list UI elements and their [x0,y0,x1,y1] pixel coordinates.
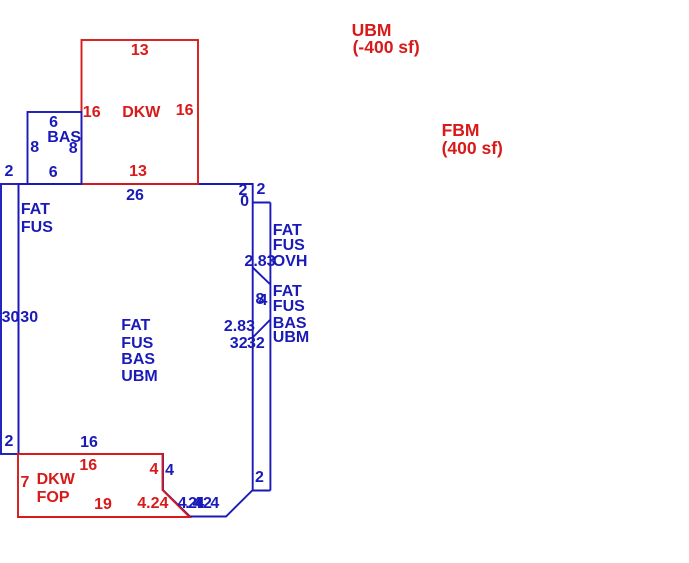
label 4 blue [165,463,174,479]
label 13 top [131,43,149,59]
wire: diagonal 2.83 lower [253,320,271,338]
label 2 corner first [239,183,248,199]
label 6 bottom BAS [49,165,58,181]
label 16 left of DKW [83,105,101,121]
label 16 FOP top [79,458,97,474]
label 2.83 upper [244,254,275,270]
label FBM [442,122,480,138]
label 2 strip bottom [4,434,13,450]
label 2 right bottom [255,470,264,486]
label FAT FUS OVH [273,223,302,239]
wire: BAS small rectangle [28,112,82,184]
label 30 first [2,310,20,326]
label 4.24 blue second [193,496,218,512]
label 2 top-left [4,164,13,180]
label 4 blue bottom [195,496,204,512]
label 0 [240,194,249,210]
label (-400 sf) [353,39,420,55]
label 8 left [30,140,39,156]
wire: diagonal 2.83 upper [253,268,271,285]
label 26 [126,188,144,204]
label 2 corner second [257,182,266,198]
label FAT FUS BAS UBM main [121,318,150,334]
label 16 right of DKW [176,103,194,119]
wire: DKW red rectangle [82,40,199,184]
label UBM [352,22,392,38]
label 6 top BAS [49,115,58,131]
label BAS [47,130,81,146]
label 7 [21,475,30,491]
label 4 red [150,462,159,478]
label 30 second [20,310,38,326]
label 2.83 lower [224,319,255,335]
label FAT FUS left [21,202,50,218]
label 4 overlapped [259,293,268,309]
label 32 second [247,336,265,352]
wire: right strip right vertical [269,203,271,491]
wire: main FAT FUS BAS UBM polygon [19,184,253,517]
label 8 right [69,141,78,157]
label 19 [94,497,112,513]
wire: right strip top [253,202,271,204]
label DKW FOP [37,472,75,488]
label 4.24 blue first [178,496,203,512]
wire: left strip FAT FUS outline [1,184,19,454]
label 13 bottom [129,164,147,180]
label FAT FUS BAS UBM right [273,284,302,300]
label DKW [122,105,160,121]
wire: DKW FOP red polygon [18,454,190,517]
label 16 blue bottom [80,435,98,451]
label 4.24 red [137,496,168,512]
label 8 overlapped [256,292,265,308]
wire: right strip bottom [253,490,271,492]
label (400 sf) [442,140,503,156]
label 32 first [230,336,248,352]
